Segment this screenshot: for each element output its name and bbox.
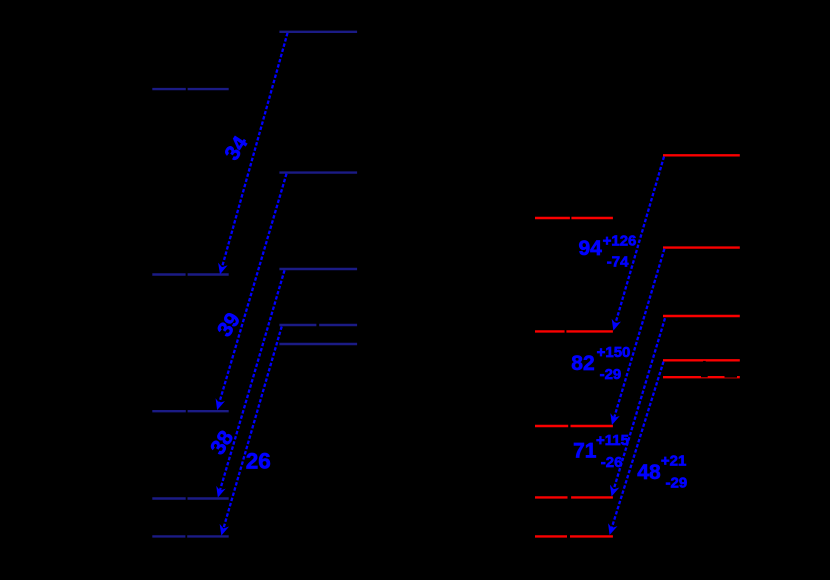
svg-text:-29: -29 <box>600 366 622 383</box>
svg-text:82: 82 <box>571 352 594 375</box>
arrow 34 <box>222 33 288 267</box>
arrowhead 34 <box>219 264 226 273</box>
level R3 <box>279 268 357 270</box>
level M2 <box>535 330 565 332</box>
arrowhead 71 <box>611 486 618 495</box>
arrowhead 39 <box>216 400 223 409</box>
svg-text:-74: -74 <box>607 254 629 271</box>
arrow 39 <box>219 174 286 403</box>
level L4 <box>152 497 185 499</box>
arrow 71 <box>614 318 665 489</box>
arrow 38 <box>220 270 285 490</box>
arrowhead 82 <box>611 415 618 424</box>
svg-text:+150: +150 <box>597 344 631 361</box>
arrow 82 <box>614 249 664 418</box>
level L1 <box>152 88 186 90</box>
svg-text:26: 26 <box>246 449 271 474</box>
level R1 <box>279 31 357 33</box>
level L2 <box>152 273 185 275</box>
level M1 <box>535 217 570 219</box>
arrow 26 <box>223 327 281 529</box>
level N5 <box>663 376 740 378</box>
svg-text:71: 71 <box>573 440 597 463</box>
arrowheads <box>216 264 619 534</box>
svg-text:+115: +115 <box>596 432 629 449</box>
svg-text:48: 48 <box>637 461 661 484</box>
black text overlaps on red levels <box>701 361 737 378</box>
arrowhead 38 <box>217 488 224 497</box>
black arrowhead on N5 <box>701 372 708 377</box>
level R4 <box>279 324 316 326</box>
svg-text:+126: +126 <box>603 233 637 250</box>
arrow 94 <box>615 157 664 324</box>
level L3 <box>152 410 186 412</box>
level L5 <box>152 535 185 537</box>
level N3 <box>663 315 740 317</box>
level R5 <box>279 343 357 345</box>
level R2 <box>279 171 357 173</box>
level N2 <box>663 246 740 248</box>
black arrow shaft N4->N5 <box>703 361 706 376</box>
level N1 <box>663 154 740 156</box>
arrowhead 26 <box>220 526 227 535</box>
right group: red levels <box>535 155 740 536</box>
arrowhead 94 <box>612 321 619 330</box>
svg-text:-29: -29 <box>666 475 688 492</box>
level M5 <box>535 535 567 537</box>
svg-text:94: 94 <box>579 237 603 260</box>
dashed transition arrows (bright blue) <box>219 33 665 529</box>
level M4 <box>535 496 568 498</box>
level N4 <box>663 359 740 361</box>
left group: yrast levels (navy) <box>152 32 357 537</box>
arrow 48 <box>612 362 664 528</box>
svg-text:+21: +21 <box>661 453 686 470</box>
black label on N5 <box>725 376 738 378</box>
svg-text:-26: -26 <box>601 454 623 471</box>
level M3 <box>535 425 568 427</box>
arrowhead 48 <box>609 525 616 534</box>
